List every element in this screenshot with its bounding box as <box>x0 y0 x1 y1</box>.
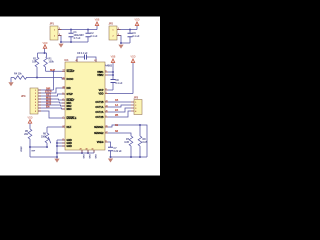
svg-text:C6 0.1 uF: C6 0.1 uF <box>77 52 88 55</box>
svg-text:4: 4 <box>135 111 136 113</box>
svg-text:PAD: PAD <box>88 155 91 160</box>
svg-text:0.1 uF: 0.1 uF <box>133 35 140 38</box>
svg-text:JP1: JP1 <box>50 22 55 26</box>
svg-text:4: 4 <box>76 60 77 62</box>
svg-text:23: 23 <box>106 100 108 102</box>
svg-text:7: 7 <box>35 108 36 110</box>
svg-text:4: 4 <box>35 99 36 101</box>
svg-text:26: 26 <box>106 110 108 112</box>
svg-text:SENSE1: SENSE1 <box>94 126 104 129</box>
svg-text:VDD: VDD <box>130 56 135 59</box>
svg-text:GND: GND <box>67 145 73 148</box>
svg-text:1: 1 <box>106 115 107 117</box>
svg-text:ROSC: ROSC <box>67 78 74 81</box>
svg-text:VDD: VDD <box>134 19 139 22</box>
svg-text:16: 16 <box>63 77 65 79</box>
svg-text:1: 1 <box>113 30 114 32</box>
svg-text:VBB: VBB <box>95 19 100 22</box>
svg-text:PAD: PAD <box>82 155 85 160</box>
svg-text:14: 14 <box>63 69 65 71</box>
svg-text:3: 3 <box>135 108 136 110</box>
svg-text:VREG: VREG <box>97 141 104 144</box>
svg-text:OUT1B: OUT1B <box>95 101 103 104</box>
svg-text:OUT1A: OUT1A <box>95 106 103 109</box>
svg-text:IC1: IC1 <box>65 58 70 62</box>
svg-text:1: 1 <box>135 102 136 104</box>
svg-text:0.05: 0.05 <box>124 141 129 144</box>
svg-text:2B: 2B <box>115 114 118 117</box>
svg-text:15: 15 <box>106 125 108 127</box>
svg-text:0.22 uF: 0.22 uF <box>114 150 123 153</box>
svg-text:0.1 uF: 0.1 uF <box>116 82 123 85</box>
svg-text:9: 9 <box>106 92 107 94</box>
svg-text:8: 8 <box>35 111 36 113</box>
svg-text:24: 24 <box>106 105 108 107</box>
svg-text:19: 19 <box>63 86 65 88</box>
svg-text:DIR: DIR <box>67 87 71 90</box>
svg-text:REF: REF <box>67 126 72 129</box>
svg-text:JP3: JP3 <box>134 96 139 100</box>
svg-text:8: 8 <box>106 88 107 90</box>
svg-text:2: 2 <box>118 34 119 36</box>
svg-text:STEP: STEP <box>67 93 74 96</box>
svg-text:JP4: JP4 <box>21 94 26 98</box>
svg-text:5: 5 <box>94 60 95 62</box>
svg-text:2: 2 <box>35 93 36 95</box>
svg-text:3: 3 <box>35 96 36 98</box>
svg-text:VDD: VDD <box>27 117 32 120</box>
svg-text:0.1 uF: 0.1 uF <box>91 35 98 38</box>
svg-text:2A: 2A <box>115 109 118 112</box>
svg-text:VDD: VDD <box>42 42 47 45</box>
svg-text:A4983: A4983 <box>105 65 113 68</box>
svg-text:1: 1 <box>118 28 119 30</box>
svg-text:8: 8 <box>106 140 107 142</box>
svg-text:3: 3 <box>63 138 64 140</box>
svg-text:VBB2: VBB2 <box>97 74 104 77</box>
svg-text:PAD: PAD <box>94 155 97 160</box>
svg-text:MS3: MS3 <box>67 108 73 111</box>
svg-text:6: 6 <box>106 70 107 72</box>
svg-text:ENABLE: ENABLE <box>67 117 77 120</box>
svg-text:1: 1 <box>63 92 64 94</box>
svg-text:17: 17 <box>63 125 65 127</box>
svg-text:1: 1 <box>35 90 36 92</box>
svg-text:6: 6 <box>35 105 36 107</box>
svg-text:30: 30 <box>86 148 88 150</box>
svg-text:SENSE2: SENSE2 <box>94 132 104 135</box>
svg-text:VBB: VBB <box>111 56 116 59</box>
svg-text:2: 2 <box>54 36 55 38</box>
svg-text:27: 27 <box>106 131 108 133</box>
svg-text:2: 2 <box>135 105 136 107</box>
svg-text:SLP: SLP <box>50 69 55 72</box>
svg-text:100k: 100k <box>49 61 55 64</box>
svg-text:1: 1 <box>59 28 60 30</box>
svg-text:29: 29 <box>80 148 82 150</box>
svg-text:2: 2 <box>63 98 64 100</box>
svg-text:SLEEP: SLEEP <box>67 70 75 73</box>
svg-text:1: 1 <box>54 30 55 32</box>
svg-text:VDD: VDD <box>98 93 103 96</box>
svg-text:1B: 1B <box>115 99 118 102</box>
svg-text:EN: EN <box>46 105 50 108</box>
svg-text:0.05: 0.05 <box>143 141 148 144</box>
svg-text:2: 2 <box>59 34 60 36</box>
svg-text:5: 5 <box>35 102 36 104</box>
svg-text:7: 7 <box>63 116 64 118</box>
svg-text:4.7 uF: 4.7 uF <box>74 37 81 40</box>
svg-text:R4 10k: R4 10k <box>14 72 22 75</box>
svg-text:OUT2A: OUT2A <box>95 111 103 114</box>
svg-text:100k: 100k <box>41 136 47 139</box>
svg-text:OUT2B: OUT2B <box>95 116 103 119</box>
svg-text:VREF: VREF <box>21 146 23 152</box>
svg-text:1A: 1A <box>115 104 118 107</box>
svg-text:2: 2 <box>113 36 114 38</box>
svg-text:31: 31 <box>92 148 94 150</box>
svg-text:JP2: JP2 <box>109 22 114 26</box>
